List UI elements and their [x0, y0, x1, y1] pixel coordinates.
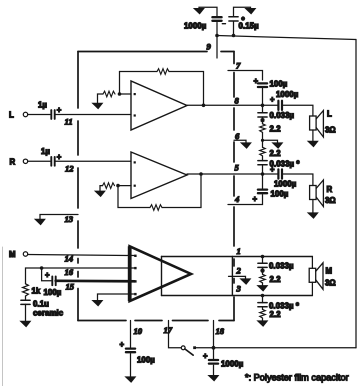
wire output cap to speaker R	[282, 174, 313, 186]
wire zobel node to R resistor	[262, 140, 264, 147]
svg-text:+: +	[57, 106, 62, 115]
wire pin 13 to ground cap	[40, 215, 78, 220]
wire pin 18 down	[213, 321, 215, 348]
op-amp U1b (R channel)	[131, 152, 187, 199]
switch SW power	[181, 346, 185, 350]
switch contact	[193, 346, 196, 349]
wire M zobel 1 to ground	[262, 283, 264, 285]
node M feedback tap	[40, 266, 44, 270]
capacitor 0.033u (M zobel 1)	[258, 263, 267, 267]
wire R zobel to R output node	[262, 165, 264, 174]
wire pin 8 to output cap	[234, 104, 278, 106]
wire switch to junction	[196, 347, 214, 349]
wire 1u to pin 12 and op-amp input	[55, 160, 131, 162]
wire pin 10 to 100u	[130, 321, 132, 349]
ground (M zobel 2)	[258, 321, 267, 326]
svg-text:1000µ: 1000µ	[221, 360, 244, 369]
svg-text:2.2: 2.2	[270, 149, 282, 158]
svg-text:10: 10	[134, 326, 143, 336]
wire tap node down to 100u	[42, 268, 51, 281]
svg-text:3: 3	[236, 284, 242, 294]
amp input dot 2	[134, 267, 136, 269]
wire 1000u to ground	[213, 365, 215, 375]
wire L zobel to shared ground node	[262, 132, 264, 140]
switch lever	[185, 349, 193, 355]
svg-text:0.033µ: 0.033µ	[270, 111, 295, 120]
wire pin 7 bootstrap	[228, 71, 263, 81]
resistor L to ground	[103, 91, 115, 97]
node supply junction left	[215, 34, 219, 38]
svg-text:2: 2	[236, 266, 242, 276]
resistor 1k	[23, 284, 29, 296]
wire M zobel 2	[262, 296, 264, 303]
wire feedback to output	[169, 72, 204, 106]
ground (top right, for 0.15u)	[246, 9, 255, 14]
svg-text:ceramic: ceramic	[33, 309, 64, 318]
svg-text:+: +	[57, 152, 62, 161]
svg-text:1000µ: 1000µ	[184, 22, 207, 31]
svg-text:L: L	[9, 111, 14, 120]
node R feedback	[116, 184, 120, 188]
svg-text:13: 13	[65, 214, 74, 224]
capacitor 100u (M feedback)	[52, 276, 55, 285]
ground (pin 6)	[241, 143, 250, 148]
ground (pin 2)	[241, 279, 250, 284]
capacitor 0.1u ceramic	[21, 300, 30, 304]
op-amp R non-inverting input dot	[134, 161, 136, 163]
node L output junction	[202, 104, 206, 108]
wire supply rail bottom	[214, 347, 357, 349]
wire M terminal to pin 14 and amp input	[28, 255, 135, 256]
svg-text:16: 16	[65, 267, 74, 277]
wire pin 17 to switch	[169, 321, 182, 348]
capacitor 1000u (bottom)	[209, 360, 218, 364]
wire R feedback node down	[118, 186, 150, 208]
node R output junction	[199, 172, 203, 176]
svg-text:+: +	[203, 352, 208, 361]
wire bootstrap cap to pin 4	[228, 195, 263, 205]
wire 0.15u top to ground	[234, 7, 251, 17]
svg-text:+: +	[120, 340, 125, 349]
wire speaker L to ground	[312, 130, 314, 141]
svg-text:2.2: 2.2	[270, 125, 282, 134]
wire feedback to R output	[162, 174, 201, 208]
power amp U1c triangle	[130, 246, 191, 301]
wire M zobel 1	[262, 257, 264, 264]
capacitor 100u (L bootstrap)	[258, 83, 267, 87]
svg-text:8: 8	[235, 96, 240, 106]
capacitor 1u (R input coupling)	[51, 157, 54, 166]
svg-text:M: M	[9, 250, 16, 259]
IC package outline right edge	[233, 52, 235, 321]
svg-text:0.033µ: 0.033µ	[269, 262, 294, 271]
wire feedback node up	[119, 72, 121, 95]
svg-text:0.1u: 0.1u	[33, 300, 49, 309]
svg-text:2.2: 2.2	[270, 310, 282, 319]
wire resistor to R zobel cap	[262, 156, 264, 161]
svg-text:1000µ: 1000µ	[276, 90, 299, 99]
resistor 2.2 (L zobel)	[260, 124, 266, 133]
svg-text:11: 11	[65, 117, 73, 127]
svg-text:*: Polyester film capacitor: *: Polyester film capacitor	[245, 373, 349, 383]
ground (R feedback)	[95, 191, 104, 196]
wire pin 5 to output cap	[234, 173, 278, 175]
node M output 1 junction	[261, 255, 265, 259]
IC package outline bottom edge	[78, 320, 234, 322]
svg-text:+: +	[253, 195, 258, 204]
wire 0.1u to ground	[25, 304, 27, 321]
svg-text:1µ: 1µ	[38, 101, 47, 110]
wire R node to bootstrap cap	[262, 174, 264, 189]
node zobel ground junction	[261, 139, 264, 142]
wire ground to C 1000u top	[199, 7, 217, 16]
svg-text:+: +	[270, 165, 275, 174]
svg-text:3Ω: 3Ω	[325, 126, 336, 135]
wire R feedback node to inverting input	[118, 185, 131, 187]
IC package outline top edge	[78, 51, 234, 53]
wire M amp ground input	[98, 294, 135, 300]
ground (top left, for 1000u supply cap)	[194, 9, 203, 14]
ground (L feedback)	[93, 103, 102, 108]
svg-text:15: 15	[66, 282, 75, 292]
capacitor 1000u (L output coupling)	[278, 101, 282, 110]
wire 100u to L output node	[262, 89, 264, 106]
svg-text:14: 14	[65, 254, 74, 264]
ground (speaker L)	[308, 141, 317, 146]
capacitor 0.15u (supply bypass)	[229, 17, 238, 21]
wire speaker R to ground	[312, 200, 314, 213]
M amp output rectangle	[161, 257, 163, 296]
wire L op-amp output to pin 8	[187, 104, 234, 106]
node L output network	[261, 104, 265, 108]
svg-text:5: 5	[235, 163, 240, 173]
polarity + of 1000u	[222, 23, 225, 25]
wire 0.15u to supply node	[233, 21, 235, 35]
resistor 2.2 (M zobel 2)	[260, 309, 266, 318]
speaker M connection top	[311, 257, 313, 269]
ground (bottom 1000u)	[209, 376, 218, 381]
ground (speaker R)	[308, 213, 317, 218]
capacitor 1000u (supply filter)	[212, 17, 221, 21]
node supply junction right	[232, 34, 236, 38]
amp input dot 3	[134, 280, 136, 282]
svg-text:+: +	[45, 271, 50, 280]
wire M zobel 1 cap to resistor	[262, 267, 264, 274]
power amp U1c (M channel) thick bar	[128, 246, 132, 301]
ground (pin 13)	[35, 219, 44, 224]
svg-text:1: 1	[237, 246, 241, 256]
speaker L	[310, 111, 324, 138]
svg-text:R: R	[327, 185, 333, 194]
svg-text:7: 7	[236, 61, 241, 71]
wire pin 16 feedback line	[26, 268, 135, 284]
svg-text:9: 9	[207, 42, 212, 52]
amp input dot 4	[134, 293, 136, 295]
wire supply rail top	[217, 36, 356, 40]
svg-text:4: 4	[234, 194, 240, 204]
capacitor 1000u (R output coupling)	[278, 169, 282, 178]
svg-text:1µ: 1µ	[41, 147, 50, 156]
svg-text:17: 17	[164, 325, 173, 335]
wire M zobel 2 cap to resistor	[262, 307, 264, 310]
svg-text:1000µ: 1000µ	[274, 180, 297, 189]
ground (pin 10 cap)	[126, 377, 135, 382]
capacitor 100u (R bootstrap)	[258, 190, 267, 194]
wire M amp output pin 3	[162, 295, 313, 297]
svg-text:3Ω: 3Ω	[325, 196, 336, 205]
wire zobel cap to resistor	[262, 117, 264, 124]
wire R op-amp output to pin 5	[187, 173, 234, 175]
wire feedback top run	[120, 71, 158, 73]
svg-text:+: +	[270, 95, 275, 104]
wire C1000u to supply node	[216, 23, 218, 36]
svg-text:0.15µ: 0.15µ	[239, 22, 260, 31]
wire pin 2 to ground	[229, 276, 246, 278]
M amp output rectangle right edge	[231, 257, 233, 296]
amp input dot 1	[134, 255, 136, 257]
resistor 2.2 (R zobel)	[260, 147, 266, 156]
wire M zobel 2 to ground	[262, 318, 264, 321]
wire R terminal to 1u cap	[28, 160, 50, 162]
wire 100u to pin 15 bold line	[56, 279, 135, 282]
speaker M	[309, 263, 323, 290]
wire 1u to pin 11 and op-amp input	[55, 114, 131, 116]
svg-text:100µ: 100µ	[270, 80, 288, 89]
speaker M connection bottom	[311, 282, 313, 295]
node M output 3 junction	[261, 294, 265, 298]
resistor L feedback	[157, 69, 169, 75]
capacitor 0.033u (M zobel 2)	[258, 303, 267, 307]
wire supply rail right side	[355, 40, 357, 348]
wire zobel node to ground	[263, 140, 278, 142]
node bottom supply junction	[212, 346, 216, 350]
wire node to zobel cap	[262, 105, 264, 113]
capacitor 0.033u (L zobel)	[258, 113, 267, 117]
wire resistor to ground	[98, 94, 104, 103]
op-amp U1a (L channel)	[131, 81, 187, 130]
node R output network	[261, 172, 265, 176]
wire resistor to ground	[100, 186, 103, 191]
svg-text:3Ω: 3Ω	[325, 279, 336, 288]
ground (zobel shared)	[273, 143, 282, 148]
svg-text:L: L	[327, 110, 332, 119]
svg-text:2.2: 2.2	[270, 275, 282, 284]
ground (M amp input)	[93, 301, 102, 306]
op-amp L inverting input dot	[134, 93, 136, 95]
capacitor 1u (L input coupling)	[51, 110, 54, 119]
IC package outline left edge	[77, 52, 79, 321]
svg-text:R: R	[10, 157, 16, 166]
svg-text:1k: 1k	[32, 287, 41, 296]
scan edge artifact (faint page edge line)	[2, 247, 4, 386]
svg-text:18: 18	[216, 326, 225, 336]
resistor 2.2 (M zobel 1)	[260, 274, 266, 283]
ground (M zobel 1)	[258, 286, 267, 291]
op-amp R inverting input dot	[134, 185, 136, 187]
svg-text:M: M	[326, 267, 333, 276]
wire L terminal to 1u cap	[28, 114, 50, 116]
wire pin 9 supply into IC	[216, 36, 218, 59]
wire junction to 1000u	[213, 348, 215, 360]
svg-text:6: 6	[235, 131, 240, 141]
capacitor 100u (pin 10 ripple)	[126, 349, 135, 353]
resistor R feedback	[150, 205, 162, 211]
ground (0.1u ceramic)	[21, 321, 30, 326]
op-amp L non-inverting input dot	[134, 114, 136, 116]
svg-text:100µ: 100µ	[137, 356, 155, 365]
svg-text:+: +	[254, 77, 259, 86]
svg-text:100µ: 100µ	[271, 190, 289, 199]
wire M amp output pin 1	[162, 256, 313, 258]
wire pin 6 to ground	[234, 140, 246, 142]
resistor R to ground	[103, 183, 115, 189]
wire output cap to speaker L	[282, 105, 313, 116]
svg-text:12: 12	[65, 164, 74, 174]
node L feedback	[118, 92, 122, 96]
wire 100u to ground	[130, 354, 132, 377]
wire feedback node to inverting input	[120, 93, 132, 95]
speaker R	[310, 180, 324, 207]
capacitor 0.033u (R zobel)	[258, 161, 267, 165]
svg-text:100µ: 100µ	[44, 288, 62, 297]
wire 1k to 0.1u	[25, 296, 27, 300]
